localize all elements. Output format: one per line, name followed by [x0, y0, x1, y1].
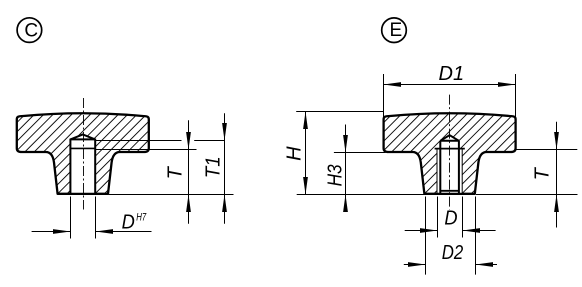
- svg-text:T: T: [165, 165, 187, 179]
- svg-text:E: E: [389, 20, 402, 41]
- svg-text:D1: D1: [439, 63, 465, 85]
- svg-text:D: D: [444, 208, 457, 230]
- svg-text:D2: D2: [442, 242, 464, 264]
- svg-text:H: H: [284, 146, 306, 161]
- svg-text:C: C: [24, 20, 38, 41]
- svg-text:T1: T1: [203, 156, 225, 178]
- svg-text:T: T: [532, 166, 554, 180]
- svg-text:H3: H3: [325, 164, 347, 186]
- svg-text:H7: H7: [136, 211, 147, 223]
- svg-text:D: D: [122, 211, 135, 233]
